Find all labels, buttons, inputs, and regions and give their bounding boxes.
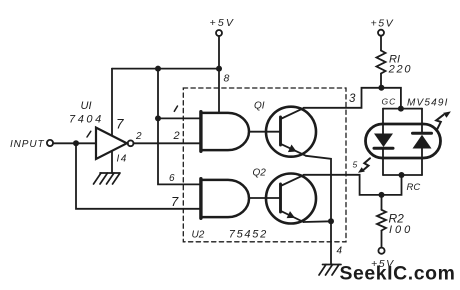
transistor Q2 [253, 168, 317, 224]
op-amp U1 7404 inverter [96, 128, 134, 159]
wire Q1 emitter to rail [306, 156, 331, 265]
LED D2 (right, cathode up) [413, 109, 432, 175]
emission arrow top right [436, 111, 451, 129]
wire inverter output pin2 to gate1 [134, 142, 201, 144]
svg-text:5: 5 [353, 159, 358, 169]
wire Q2 emitter to rail junction [304, 220, 332, 223]
wire input to inverter [53, 142, 96, 144]
svg-text:4: 4 [337, 245, 343, 256]
svg-text:QI: QI [254, 101, 265, 112]
svg-text:220: 220 [388, 63, 413, 75]
wire gate B output to Q2 base [249, 197, 281, 199]
AND gate A (pins 1,2 -> 3) [201, 112, 249, 152]
transistor Q1 [254, 101, 316, 157]
svg-text:Q2: Q2 [253, 168, 267, 179]
junction at 158,118.4 [155, 115, 161, 121]
junction at 219,68.6 [216, 66, 222, 72]
svg-text:2: 2 [173, 130, 180, 142]
svg-text:7: 7 [171, 194, 179, 209]
resistor R1 220 [371, 17, 413, 88]
svg-text:U2: U2 [192, 230, 205, 241]
junction R2 top [379, 192, 385, 198]
wire U1 ground stub [111, 152, 113, 174]
node +5V top center terminal [210, 17, 236, 36]
svg-text:7: 7 [116, 117, 124, 132]
node INPUT terminal [10, 139, 53, 150]
svg-text:75452: 75452 [229, 229, 268, 241]
junction at 76,143.3 [73, 140, 79, 146]
svg-text:MV549I: MV549I [407, 98, 449, 109]
wire input down and across to pin 7 [76, 143, 201, 209]
LED bottom rail [383, 174, 422, 176]
wire vertical x=158 down to pin 6 feed [158, 69, 201, 185]
svg-text:SeekIC.com: SeekIC.com [340, 263, 456, 285]
pin 1 slash U1 [87, 131, 91, 137]
svg-text:+5V: +5V [210, 17, 236, 29]
LED top rail [383, 108, 422, 110]
svg-text:8: 8 [224, 72, 230, 84]
svg-text:RC: RC [407, 182, 421, 193]
svg-text:UI: UI [81, 100, 92, 112]
ground below U1 [94, 173, 121, 184]
svg-text:7404: 7404 [69, 114, 104, 126]
IC U2 dashed box 75452 [183, 88, 346, 242]
svg-text:3: 3 [349, 93, 356, 105]
svg-text:GC: GC [382, 96, 397, 106]
wire gate A output to Q1 base [249, 131, 281, 133]
resistor R2 100 [371, 195, 413, 270]
pin 1 slash gate A [174, 106, 177, 111]
junction R1 bottom [378, 85, 384, 91]
junction GC rail [398, 106, 404, 112]
wire Q2 collector to RC node [304, 175, 402, 195]
svg-text:+5V: +5V [371, 17, 395, 29]
junction emitter rail [328, 218, 334, 224]
svg-text:I4: I4 [117, 154, 128, 165]
svg-text:6: 6 [169, 173, 175, 184]
wire vertical to U1 top [111, 69, 113, 136]
wire +5V horizontal rail [112, 68, 219, 70]
wire Q1 collector to GC node [304, 88, 401, 109]
emission arrow bottom left [358, 158, 370, 173]
junction at 158,68.6 [155, 66, 161, 72]
wire +5V vertical down to gate1 pin 8 [218, 36, 220, 112]
svg-text:INPUT: INPUT [10, 139, 45, 150]
svg-text:I00: I00 [389, 224, 413, 236]
LED D1 (left, cathode down) [374, 109, 393, 175]
ground pin 4 [319, 265, 341, 276]
LED package MV5491 [366, 124, 441, 158]
junction RC rail [399, 172, 405, 178]
svg-text:2: 2 [135, 131, 142, 142]
wire pin 1 feed [158, 117, 201, 119]
AND gate B (pins 6,7 -> 5) [201, 179, 249, 219]
